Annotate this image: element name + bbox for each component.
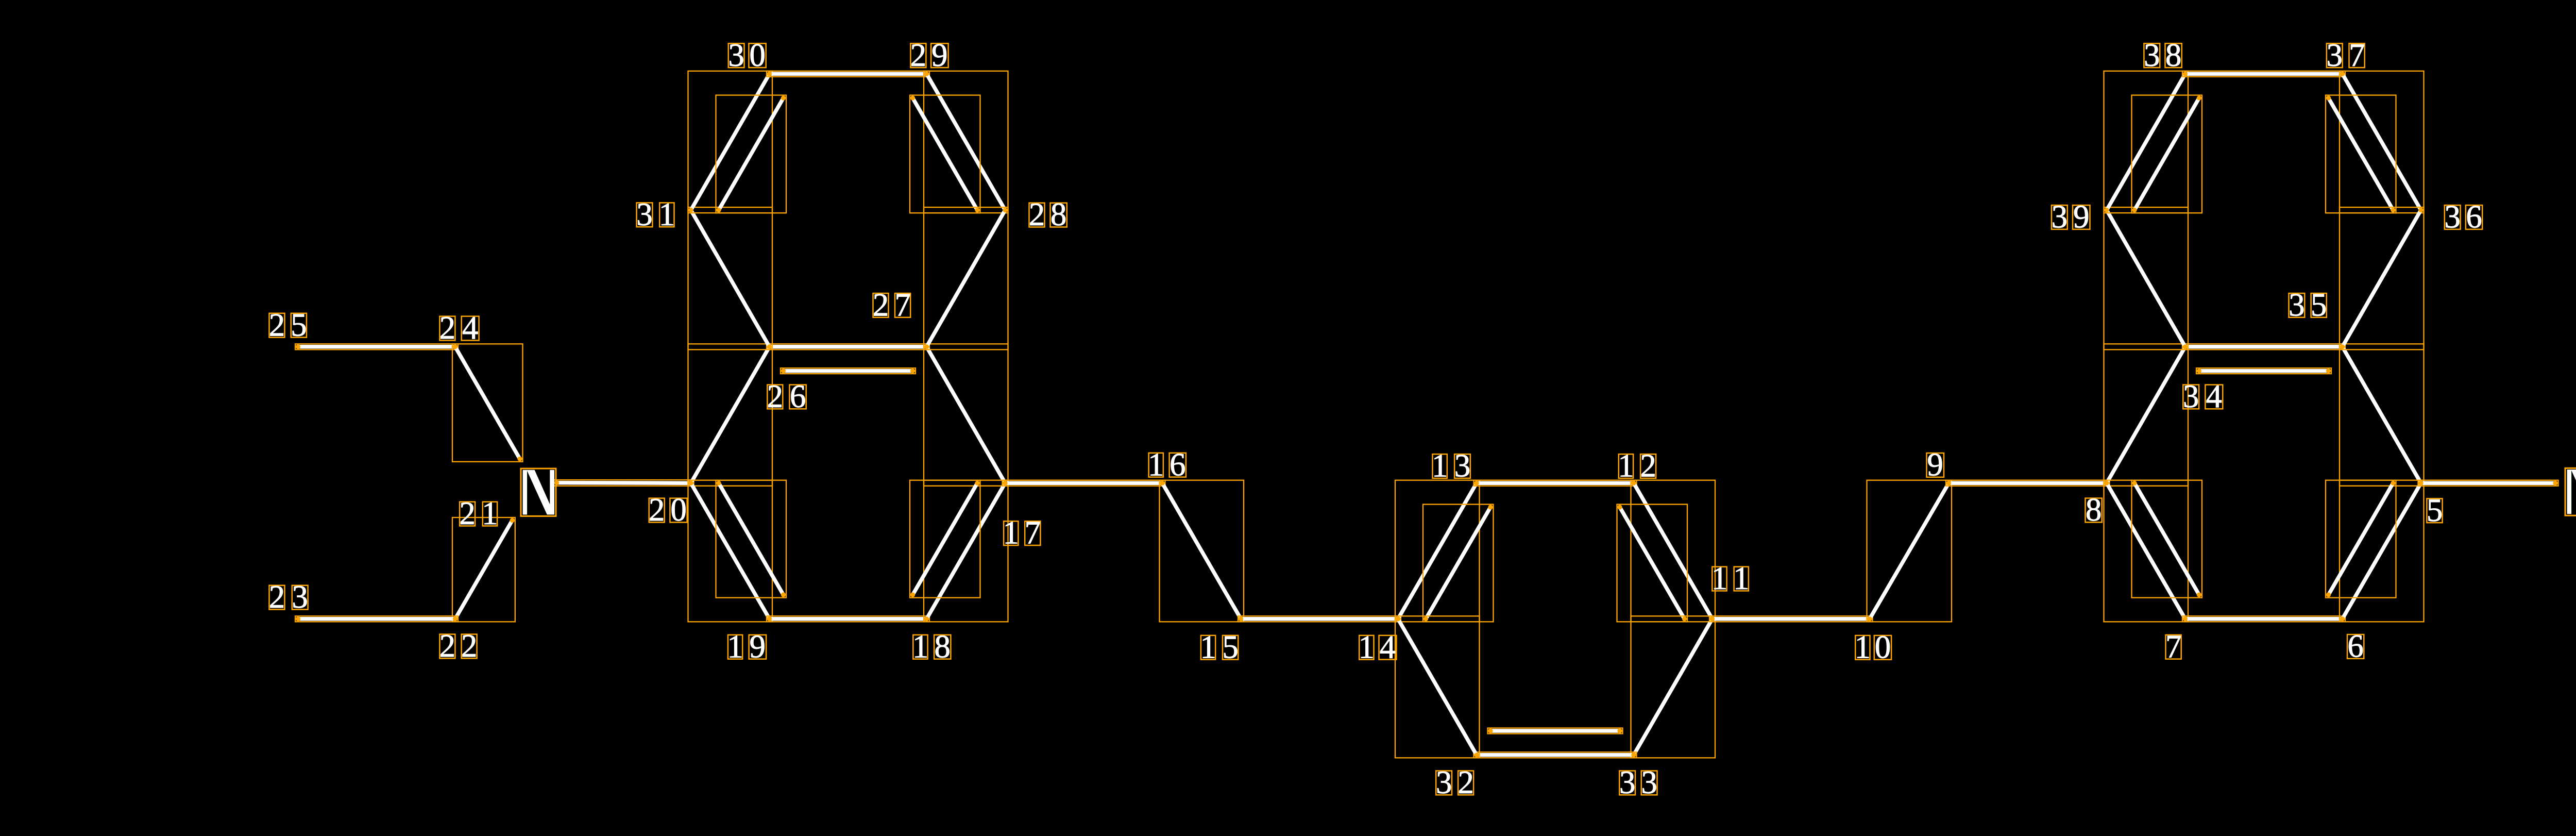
bond 28-27: [924, 207, 1008, 349]
bond 26=27 inner: [781, 368, 916, 374]
atom label 35: [2289, 287, 2327, 323]
svg-text:1: 1: [482, 495, 498, 531]
svg-text:1: 1: [1733, 560, 1750, 596]
atom label 25: [269, 307, 307, 343]
svg-text:6: 6: [790, 378, 806, 414]
atom label 24: [439, 310, 479, 346]
svg-text:6: 6: [2347, 628, 2364, 664]
bond 31=30: [688, 71, 773, 213]
svg-text:8: 8: [2086, 492, 2102, 528]
bond 20=19 inner: [716, 480, 787, 598]
svg-text:2: 2: [1640, 448, 1656, 484]
svg-text:6: 6: [1170, 446, 1186, 482]
bond 27-17: [924, 344, 1008, 486]
atom label 23: [269, 579, 308, 615]
svg-text:0: 0: [749, 37, 766, 73]
svg-text:3: 3: [1619, 764, 1636, 800]
atom label 39: [2052, 199, 2090, 235]
atom label 33: [1619, 764, 1657, 800]
svg-text:2: 2: [1029, 196, 1045, 232]
svg-text:1: 1: [1855, 629, 1871, 665]
atom label 19: [727, 628, 766, 664]
bond 14=13 inner: [1423, 505, 1494, 622]
svg-text:1: 1: [912, 628, 929, 664]
svg-text:1: 1: [1148, 446, 1164, 482]
svg-text:8: 8: [1050, 196, 1067, 232]
atom label 26: [767, 378, 806, 414]
svg-text:3: 3: [2327, 37, 2343, 73]
svg-text:4: 4: [462, 310, 479, 346]
atom label 27: [873, 287, 911, 323]
nitrogen atom N2: [2565, 468, 2576, 515]
svg-text:3: 3: [636, 196, 653, 232]
bond 16-15: [1160, 480, 1244, 622]
svg-text:9: 9: [931, 37, 948, 73]
atom label 8: [2086, 492, 2102, 528]
svg-text:1: 1: [1711, 560, 1728, 596]
bond 24-21: [452, 344, 523, 462]
svg-text:2: 2: [269, 307, 285, 343]
svg-text:8: 8: [2165, 37, 2182, 73]
bond 11-10: [1709, 616, 1873, 622]
svg-text:2: 2: [910, 37, 927, 73]
svg-text:2: 2: [1458, 764, 1474, 800]
bond 26-31: [688, 207, 773, 349]
bond 21-20: [554, 480, 693, 486]
bond 5-2: [2418, 480, 2558, 486]
svg-text:7: 7: [894, 287, 911, 323]
svg-text:1: 1: [727, 628, 743, 664]
svg-text:3: 3: [2289, 287, 2305, 323]
svg-text:5: 5: [2311, 287, 2327, 323]
atom label 10: [1855, 629, 1892, 665]
bond 22-23: [295, 616, 458, 622]
svg-text:3: 3: [1454, 448, 1471, 484]
atom label 14: [1359, 629, 1397, 665]
atom label 38: [2144, 37, 2182, 73]
svg-text:1: 1: [659, 196, 675, 232]
atom label 5: [2427, 492, 2443, 528]
atom label 22: [439, 628, 478, 664]
bond 26=27: [767, 344, 929, 349]
bond 29=28 inner: [910, 95, 980, 213]
bond 14=13: [1395, 480, 1480, 622]
bond 34-39: [2104, 207, 2189, 349]
bond 35-5: [2340, 344, 2424, 486]
svg-text:9: 9: [750, 628, 766, 664]
svg-text:1: 1: [1003, 515, 1019, 551]
atom label 30: [728, 37, 766, 73]
bond 11-33: [1631, 616, 1716, 758]
svg-text:3: 3: [292, 579, 308, 615]
svg-text:3: 3: [728, 37, 744, 73]
svg-text:2: 2: [461, 628, 478, 664]
bond 8-34: [2104, 344, 2189, 486]
svg-text:1: 1: [1618, 448, 1634, 484]
atom label 36: [2444, 199, 2482, 235]
svg-text:9: 9: [2073, 199, 2090, 235]
svg-text:7: 7: [2349, 37, 2365, 73]
bond 20=19: [688, 480, 773, 622]
bond 34=35 inner: [2196, 368, 2331, 374]
atom label 15: [1200, 629, 1239, 665]
svg-text:5: 5: [2427, 492, 2443, 528]
svg-text:2: 2: [649, 492, 665, 528]
atom label 9: [1927, 447, 1944, 483]
bond 31=30 inner: [716, 95, 787, 213]
atom label 7: [2165, 628, 2182, 664]
bond 17-16: [1003, 480, 1165, 486]
bond 18=17: [924, 480, 1008, 622]
svg-text:2: 2: [439, 628, 456, 664]
atom label 18: [912, 628, 951, 664]
bond 7-6: [2182, 616, 2345, 622]
atom label 17: [1003, 515, 1041, 551]
svg-text:9: 9: [1927, 447, 1943, 483]
bond 38-37: [2182, 71, 2345, 77]
bond 30-29: [767, 71, 929, 77]
bond 32-14: [1395, 616, 1480, 758]
bond 33=32 inner: [1488, 728, 1623, 734]
svg-text:0: 0: [670, 492, 687, 528]
atom label 28: [1029, 196, 1067, 232]
nitrogen atom N21: [521, 469, 556, 516]
svg-text:2: 2: [439, 310, 456, 346]
svg-text:2: 2: [767, 378, 784, 414]
bond 29=28: [924, 71, 1008, 213]
svg-text:7: 7: [1025, 515, 1041, 551]
bond 8=7 inner: [2132, 480, 2202, 598]
svg-text:2: 2: [873, 287, 889, 323]
bond 39=38 inner: [2132, 95, 2202, 213]
bond 13-12: [1474, 480, 1637, 486]
atom label 13: [1432, 448, 1470, 484]
svg-text:3: 3: [1436, 764, 1452, 800]
bond 21-22: [452, 517, 515, 622]
atom label 29: [910, 37, 948, 73]
bond 39=38: [2104, 71, 2189, 213]
atom label 31: [636, 196, 675, 232]
svg-text:2: 2: [269, 579, 285, 615]
atom label 6: [2347, 628, 2364, 664]
bond 37=36 inner: [2326, 95, 2396, 213]
atom label 21: [459, 495, 498, 531]
svg-text:6: 6: [2466, 199, 2482, 235]
svg-text:3: 3: [2444, 199, 2461, 235]
bond 9-8: [1946, 480, 2110, 486]
svg-text:3: 3: [1641, 764, 1657, 800]
bond 12=11: [1631, 480, 1716, 622]
svg-text:4: 4: [1380, 629, 1396, 665]
svg-text:1: 1: [1200, 629, 1216, 665]
svg-text:0: 0: [1875, 629, 1891, 665]
bond 19-18: [767, 616, 929, 622]
bond 34=35: [2182, 344, 2345, 349]
bond 20-26: [688, 344, 773, 486]
bond 10-9: [1867, 480, 1952, 622]
atom label 16: [1148, 446, 1186, 482]
bond 8=7: [2104, 480, 2189, 622]
bond 15-14: [1238, 616, 1401, 622]
svg-text:2: 2: [459, 495, 476, 531]
svg-text:4: 4: [2206, 378, 2223, 414]
atom label 37: [2327, 37, 2365, 73]
svg-text:1: 1: [1432, 448, 1448, 484]
bond 36-35: [2340, 207, 2424, 349]
bond 18=17 inner: [910, 480, 980, 598]
bond 6=5: [2340, 480, 2424, 622]
svg-text:5: 5: [1222, 629, 1239, 665]
svg-text:1: 1: [1359, 629, 1375, 665]
bond 37=36: [2340, 71, 2424, 213]
svg-text:7: 7: [2165, 628, 2182, 664]
atom label 32: [1436, 764, 1474, 800]
svg-text:5: 5: [291, 307, 307, 343]
bond 25-24: [295, 344, 458, 349]
bond 33=32: [1474, 752, 1637, 758]
svg-text:8: 8: [934, 628, 951, 664]
svg-text:3: 3: [2183, 378, 2199, 414]
atom label 34: [2183, 378, 2223, 414]
atom label 12: [1618, 448, 1656, 484]
svg-text:3: 3: [2052, 199, 2068, 235]
bond 12=11 inner: [1617, 505, 1688, 622]
bond 6=5 inner: [2326, 480, 2396, 598]
atom label 20: [649, 492, 687, 528]
atom label 11: [1711, 560, 1750, 596]
svg-text:3: 3: [2144, 37, 2160, 73]
